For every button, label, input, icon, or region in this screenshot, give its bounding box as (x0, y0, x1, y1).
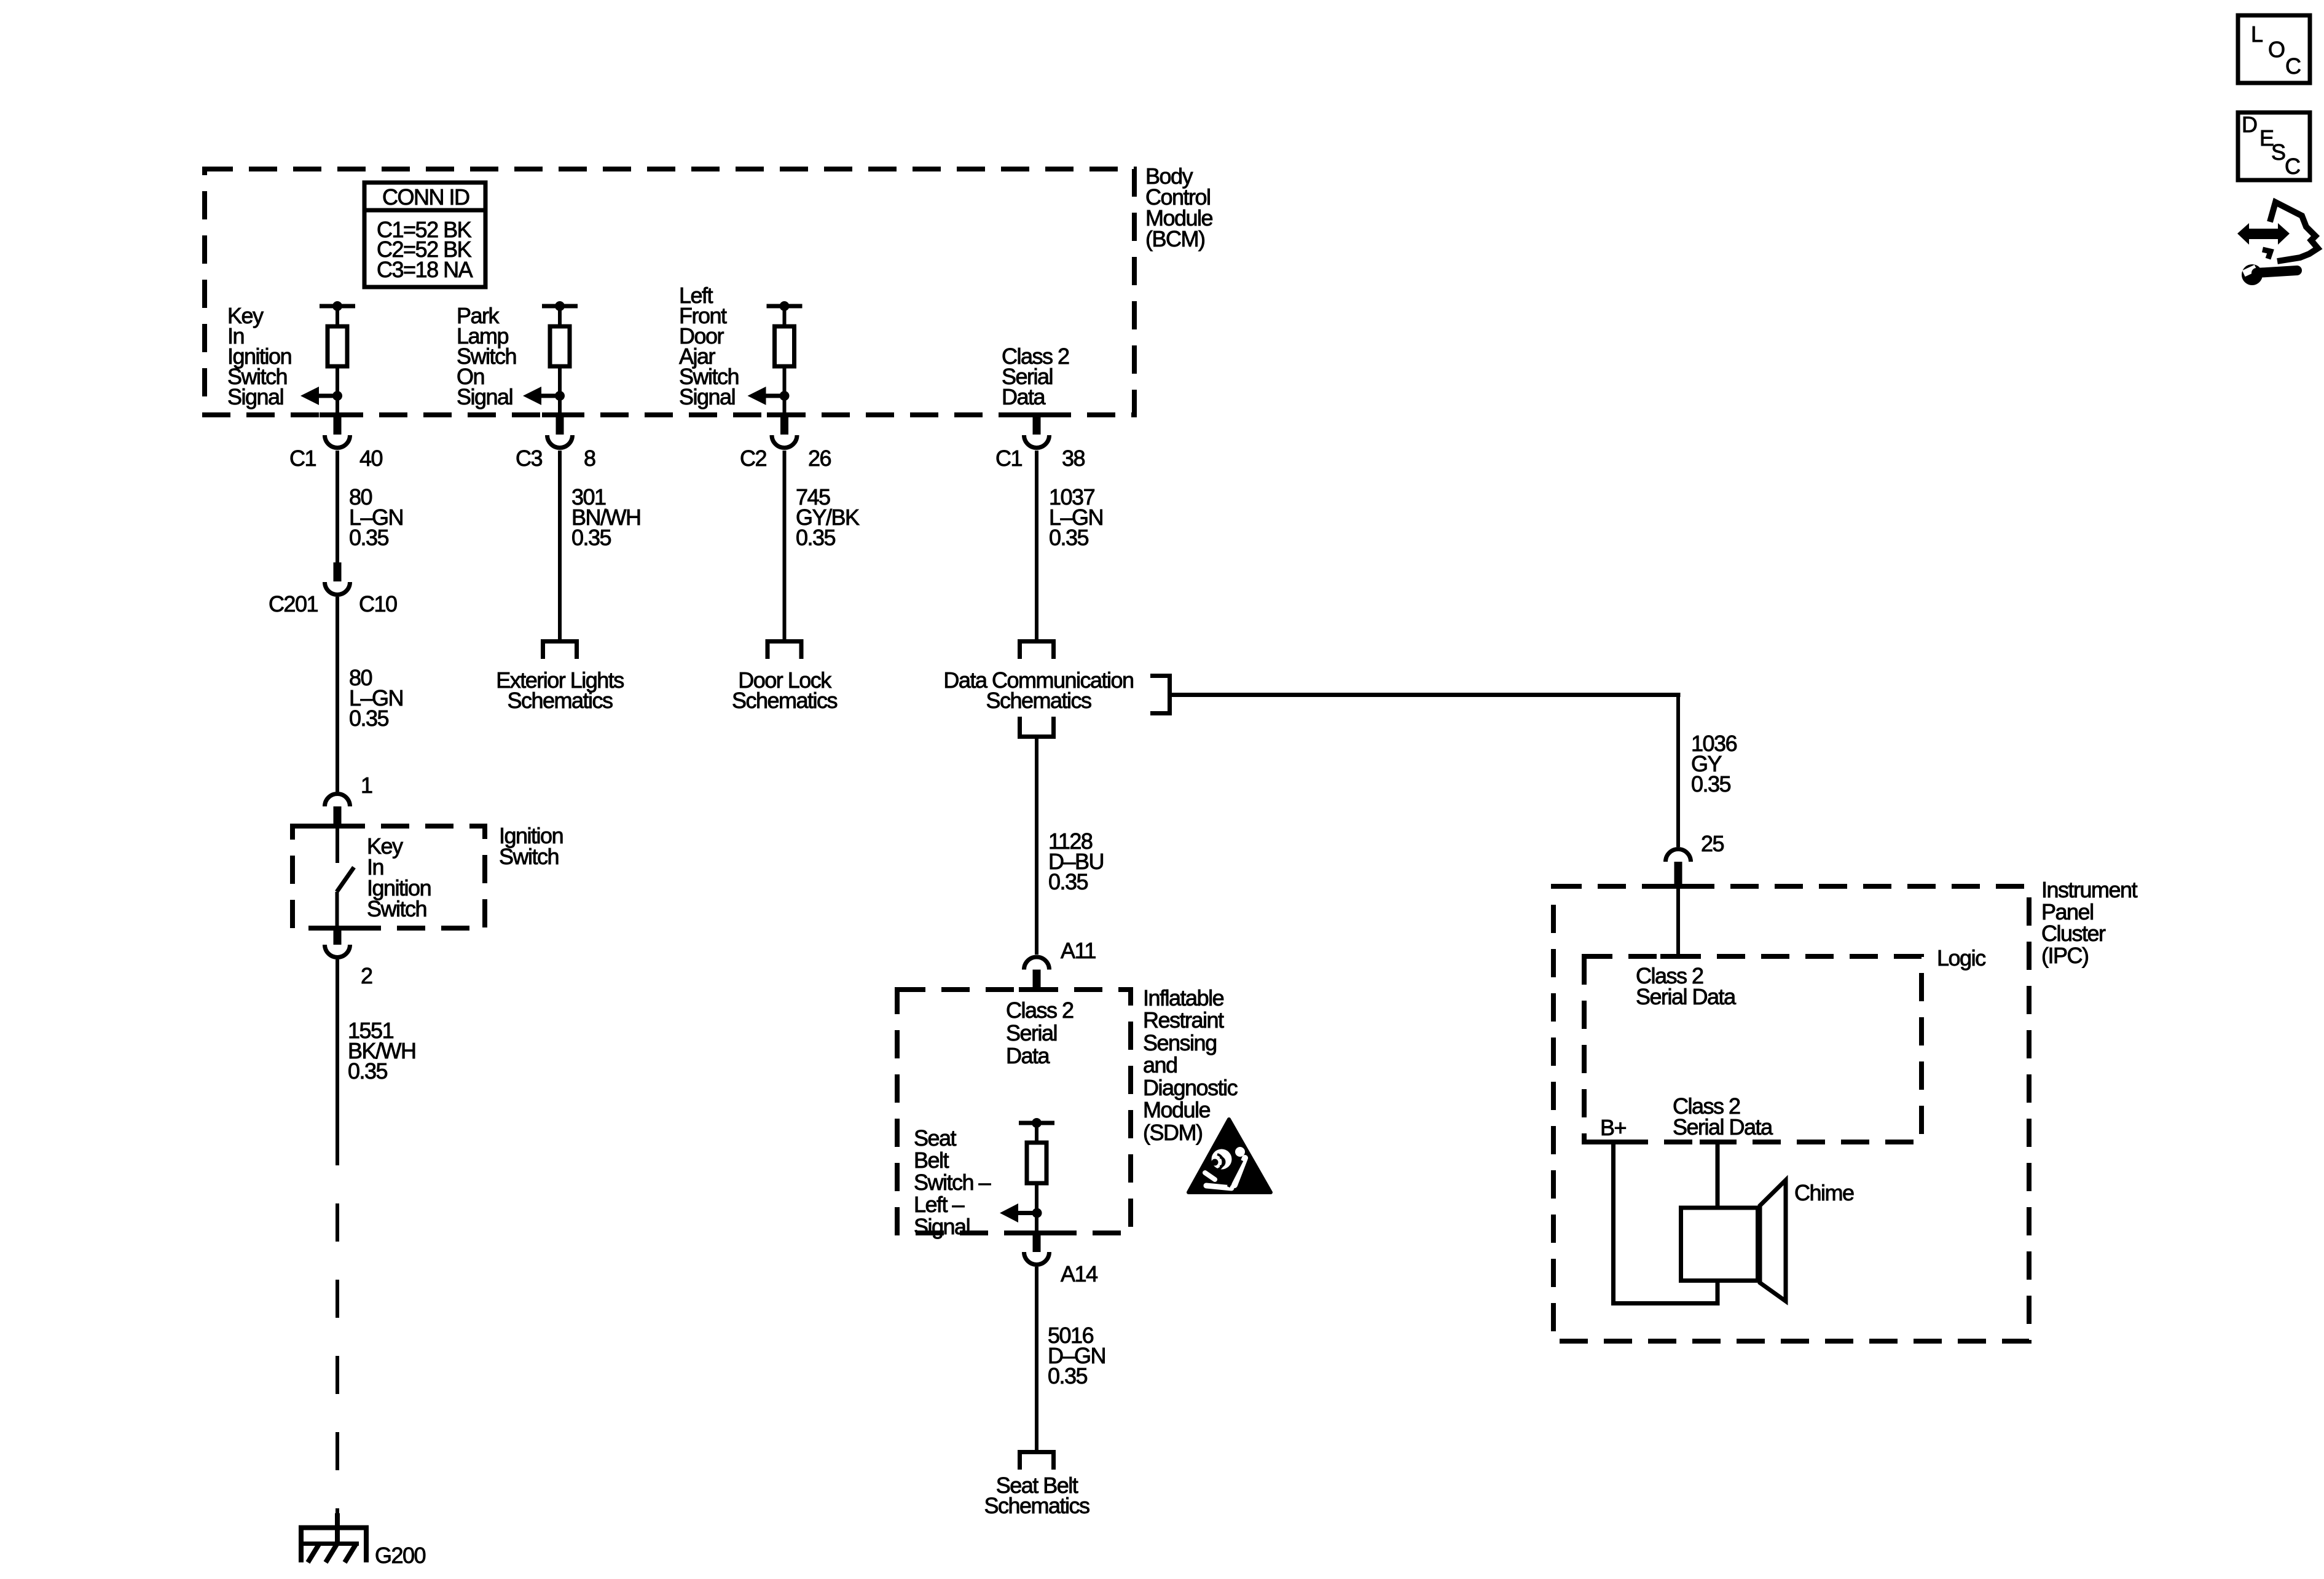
edge dash ticks at wire crossings (320, 412, 1735, 1235)
svg-text:(BCM): (BCM) (1145, 226, 1204, 251)
wire: BCM C3-8 to exterior lights (558, 451, 562, 639)
LOC legend box (2238, 15, 2310, 83)
connector C3 pin 8 at BCM (548, 415, 573, 447)
off-page terminal: seat belt schematics (1018, 1450, 1056, 1470)
label: Class 2 Serial Data (logic top) (1636, 963, 1737, 1009)
svg-text:Left –: Left – (914, 1192, 965, 1217)
wire: data communication to IPC pin 25 (1172, 693, 1681, 847)
wire: BCM C1-38 to data communication (1035, 451, 1038, 639)
svg-text:26: 26 (808, 446, 831, 471)
svg-text:38: 38 (1062, 446, 1085, 471)
label: Door Lock Schematics (732, 667, 838, 713)
Instrument Panel Cluster box (1553, 886, 2029, 1341)
label: Key In Ignition Switch (inside box) (367, 833, 431, 921)
wire: class 2 serial data to chime (1716, 1142, 1720, 1208)
wire label 80 L-GN 0.35 (second) (349, 665, 403, 731)
label: Seat Belt Schematics (984, 1473, 1089, 1518)
CONN ID table (363, 183, 487, 287)
wire: pin 25 into logic (1676, 886, 1680, 956)
pin labels C2 / 26 (740, 446, 831, 471)
svg-text:Switch: Switch (367, 896, 426, 921)
connector C2 pin 26 at BCM (772, 415, 797, 447)
wire: BCM C2-26 to door lock (783, 451, 787, 639)
label: Class 2 Serial Data (logic bottom) (1673, 1093, 1773, 1140)
signal arrow node (key in ignition) (300, 387, 342, 405)
svg-text:Sensing: Sensing (1143, 1030, 1217, 1055)
wire: SDM A14 to seat belt schematics (1035, 1267, 1038, 1452)
svg-text:40: 40 (359, 446, 383, 471)
svg-text:C201: C201 (269, 591, 318, 616)
svg-text:C10: C10 (359, 591, 397, 616)
off-page terminal: data communication (bottom) (1018, 717, 1056, 737)
svg-text:Inflatable: Inflatable (1143, 985, 1224, 1010)
connector pin A11 at SDM (1024, 957, 1049, 990)
connector C1 pin 40 at BCM (325, 415, 350, 447)
svg-text:L: L (2251, 22, 2263, 47)
resistor R4 (seat belt switch, SDM internal) (1019, 1118, 1054, 1233)
connector pin 1 at ignition switch (325, 793, 350, 826)
svg-text:G200: G200 (375, 1543, 426, 1568)
svg-text:0.35: 0.35 (349, 525, 389, 550)
wire label 745 GY/BK 0.35 (796, 484, 860, 550)
svg-text:1: 1 (361, 773, 372, 798)
switch S1 key-in-ignition blade (337, 826, 354, 928)
resistor R1 (key in ignition switch signal, BCM internal) (320, 301, 355, 415)
svg-text:Schematics: Schematics (986, 688, 1091, 713)
connector pin 2 at ignition switch (325, 928, 350, 958)
svg-text:Schematics: Schematics (984, 1493, 1089, 1518)
svg-text:Schematics: Schematics (507, 688, 613, 713)
svg-text:O: O (2268, 37, 2285, 62)
Ignition Switch box (292, 826, 485, 928)
connector C1 pin 38 at BCM (1024, 415, 1049, 447)
svg-text:(IPC): (IPC) (2041, 943, 2089, 968)
wire label 301 BN/WH 0.35 (571, 484, 641, 550)
svg-text:A11: A11 (1061, 938, 1096, 963)
svg-text:Signal: Signal (914, 1214, 970, 1239)
label: Key In Ignition Switch Signal (227, 303, 291, 409)
wire: data communication to SDM A11 (1035, 739, 1038, 955)
off-page terminal: data communication (top) (1018, 639, 1056, 659)
svg-text:0.35: 0.35 (571, 525, 611, 550)
svg-text:0.35: 0.35 (1691, 771, 1731, 797)
svg-text:0.35: 0.35 (1049, 525, 1089, 550)
wire label 1128 D-BU 0.35 (1048, 829, 1104, 894)
svg-text:Serial Data: Serial Data (1673, 1114, 1773, 1140)
svg-text:Belt: Belt (914, 1148, 949, 1173)
svg-text:Signal: Signal (227, 384, 283, 409)
svg-text:CONN ID: CONN ID (382, 184, 469, 210)
svg-text:Logic: Logic (1937, 945, 1986, 971)
svg-text:8: 8 (584, 446, 595, 471)
svg-text:Schematics: Schematics (732, 688, 838, 713)
svg-text:C3: C3 (516, 446, 542, 471)
svg-text:Instrument: Instrument (2041, 877, 2138, 902)
label: Left Front Door Ajar Switch Signal (679, 283, 739, 409)
svg-text:Cluster: Cluster (2041, 921, 2106, 946)
svg-text:C: C (2285, 53, 2301, 79)
svg-text:Serial: Serial (1006, 1020, 1057, 1045)
wire: B+ feed to chime (1614, 1142, 1718, 1304)
svg-text:C1: C1 (289, 446, 316, 471)
label: Exterior Lights Schematics (496, 667, 624, 713)
airbag warning triangle (1188, 1119, 1271, 1192)
BCM name label (1145, 163, 1213, 251)
svg-text:(SDM): (SDM) (1143, 1120, 1202, 1145)
svg-text:B+: B+ (1600, 1115, 1627, 1140)
svg-text:Switch: Switch (499, 844, 559, 869)
svg-text:Signal: Signal (457, 384, 512, 409)
label: Data Communication Schematics (943, 667, 1133, 713)
chime speaker (1681, 1180, 1786, 1301)
label: Park Lamp Switch On Signal (457, 303, 516, 409)
svg-text:0.35: 0.35 (348, 1058, 388, 1084)
wire label 80 L-GN 0.35 (349, 484, 403, 550)
svg-text:0.35: 0.35 (349, 706, 389, 731)
off-page terminal: door lock (766, 639, 804, 659)
wire: dashed run to G200 (336, 1127, 339, 1518)
DESC legend box (2238, 112, 2310, 180)
label: Seat Belt Switch - Left - Signal (914, 1125, 991, 1239)
wire label 1036 GY 0.35 (1691, 731, 1737, 797)
connector labels C201 / C10 (269, 591, 397, 616)
svg-text:Class 2: Class 2 (1006, 998, 1074, 1023)
pin labels C1 / 40 (289, 446, 383, 471)
svg-text:2: 2 (361, 963, 372, 988)
wire label 1551 BK/WH 0.35 (348, 1018, 416, 1084)
svg-text:0.35: 0.35 (1048, 1363, 1088, 1388)
label: Class 2 Serial Data (SDM) (1006, 998, 1074, 1068)
inline connector C201 / C10 (325, 562, 350, 595)
signal arrow node (park lamp) (523, 387, 565, 405)
wire: ignition switch to ground (solid part) (336, 959, 339, 1127)
svg-text:0.35: 0.35 (796, 525, 836, 550)
svg-text:Switch –: Switch – (914, 1170, 991, 1195)
label: Class 2 Serial Data (BCM) (1002, 344, 1069, 409)
wire: C201 to ignition switch (336, 597, 339, 792)
label: Inflatable Restraint Sensing and Diagnostic Module (SDM) (1143, 985, 1238, 1145)
svg-text:C2: C2 (740, 446, 766, 471)
svg-text:C1: C1 (995, 446, 1022, 471)
wire: BCM C1-40 to C201 (336, 451, 339, 562)
svg-text:Data: Data (1002, 384, 1046, 409)
svg-text:Module: Module (1143, 1097, 1211, 1122)
Logic box (1584, 956, 1922, 1142)
svg-text:C3=18 NA: C3=18 NA (377, 257, 473, 282)
signal arrow node (door ajar) (748, 387, 790, 405)
svg-text:and: and (1143, 1052, 1177, 1077)
navigation icon (double arrow, panel outline, wrench) (2237, 202, 2318, 285)
svg-text:S: S (2271, 140, 2285, 165)
pin labels C3 / 8 (516, 446, 595, 471)
label: Instrument Panel Cluster (IPC) (2041, 877, 2138, 968)
svg-text:A14: A14 (1061, 1261, 1097, 1286)
signal arrow node (seat belt switch) (1000, 1203, 1042, 1223)
svg-text:Chime: Chime (1794, 1180, 1854, 1205)
label: Ignition Switch (499, 823, 563, 869)
ground G200 (299, 1513, 369, 1562)
resistor R2 (park lamp switch on signal) (542, 301, 578, 415)
svg-text:C: C (2285, 154, 2300, 179)
svg-text:Signal: Signal (679, 384, 735, 409)
svg-text:25: 25 (1701, 831, 1724, 856)
svg-text:Seat: Seat (914, 1125, 957, 1151)
wire label 5016 D-GN 0.35 (1048, 1323, 1105, 1388)
svg-text:Data: Data (1006, 1043, 1051, 1068)
svg-text:D: D (2242, 112, 2257, 137)
off-page bracket to IPC (1150, 674, 1172, 715)
resistor R3 (left front door ajar switch signal) (767, 301, 803, 415)
svg-text:Serial Data: Serial Data (1636, 984, 1737, 1009)
connector pin 25 at IPC (1666, 849, 1691, 887)
Inflatable Restraint SDM box (897, 990, 1131, 1233)
wire label 1037 L-GN 0.35 (1049, 484, 1103, 550)
Body Control Module (BCM) box (205, 169, 1134, 415)
svg-text:Diagnostic: Diagnostic (1143, 1075, 1238, 1100)
pin labels C1 / 38 (995, 446, 1085, 471)
off-page terminal: exterior lights (541, 639, 579, 659)
svg-text:0.35: 0.35 (1048, 869, 1088, 894)
connector pin A14 at SDM (1024, 1233, 1049, 1265)
svg-text:Restraint: Restraint (1143, 1007, 1224, 1033)
